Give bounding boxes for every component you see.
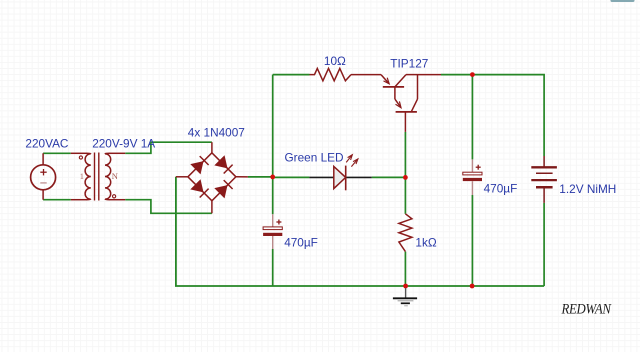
capacitor C1 470uF: [263, 214, 282, 249]
diode D4 (bottom->right): [215, 186, 227, 198]
resistor R2 1k: [399, 214, 412, 252]
svg-text:10Ω: 10Ω: [324, 54, 346, 68]
svg-text:1: 1: [80, 171, 84, 181]
UI remnant smudge top-right: [611, 0, 635, 2]
wire: transistor collector to node B: [404, 132, 406, 178]
wire: transformer secondary bottom to bridge: [125, 200, 212, 214]
capacitor C2 470uF: [463, 159, 482, 195]
svg-text:470µF: 470µF: [284, 236, 318, 250]
resistor R1 10ohm: [310, 68, 352, 80]
node A junction: [270, 175, 275, 180]
wire: top rail cap branch: [471, 75, 473, 160]
bottom rail cap junction: [470, 284, 475, 289]
node B junction: [403, 175, 408, 180]
svg-text:REDWAN: REDWAN: [561, 301, 612, 317]
top rail junction: [470, 72, 475, 77]
wire: battery bottom: [543, 203, 545, 286]
bottom rail ground junction: [403, 284, 408, 289]
wire: top rail left segment: [273, 74, 310, 76]
svg-text:470µF: 470µF: [484, 181, 518, 195]
svg-text:1.2V NiMH: 1.2V NiMH: [559, 182, 616, 196]
diode D2 (top->right): [215, 156, 227, 168]
svg-text:TIP127: TIP127: [390, 57, 428, 71]
svg-text:220VAC: 220VAC: [25, 137, 69, 151]
transistor Q1 TIP127: [351, 75, 441, 132]
diode D3 (left->bottom): [191, 180, 203, 192]
wire: node A vertical riser: [272, 75, 274, 215]
svg-text:N: N: [112, 171, 118, 181]
wire: AC source bottom link: [43, 199, 71, 201]
wire: top rail right segment to battery: [441, 75, 544, 156]
wire: left cap lower to bottom rail: [272, 249, 274, 286]
LED D5 Green LED: [309, 155, 371, 191]
AC source V1 220VAC: [31, 153, 56, 199]
wire: 1k resistor to bottom rail: [404, 252, 406, 286]
svg-text:4x 1N4007: 4x 1N4007: [188, 126, 245, 140]
wire: node B to 1k resistor: [404, 177, 406, 213]
wire: bridge negative to bottom rail: [176, 177, 544, 286]
transformer T1: [71, 153, 125, 201]
wire: LED right lead green: [372, 176, 406, 178]
wire: right cap to bottom rail: [471, 195, 473, 286]
svg-text:Green LED: Green LED: [285, 151, 344, 165]
wire: transformer secondary top to bridge: [125, 142, 212, 153]
wire: LED left lead green: [273, 176, 310, 178]
wire: bridge positive to node A: [248, 176, 273, 178]
diode D1 (left->top): [191, 162, 203, 174]
bridge rectifier D1-D4 (4x 1N4007): [176, 142, 248, 213]
ground symbol: [393, 288, 417, 306]
svg-text:220V-9V 1A: 220V-9V 1A: [92, 137, 155, 151]
svg-text:1kΩ: 1kΩ: [415, 236, 436, 250]
battery BT1 1.2V NiMH: [531, 156, 557, 203]
wire: AC source top link: [43, 152, 71, 154]
